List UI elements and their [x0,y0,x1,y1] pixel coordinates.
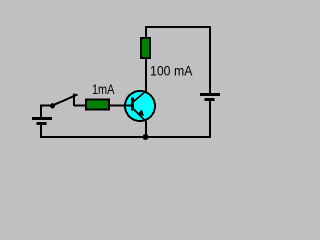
wire: resistor R2 to transistor base [110,105,132,107]
switch SW1 lever (open) [53,95,78,106]
battery B1 (right) short plate [205,98,215,101]
wire: top horizontal (collector loop top) [145,26,211,28]
switch SW1 pivot dot [50,103,55,108]
resistor R2 (1mA, horizontal) [86,100,109,110]
transistor Q1 collector stroke [133,91,146,102]
svg-text:1mA: 1mA [92,82,115,97]
battery B1 (right) long plate [200,93,220,96]
wire: resistor R1 to transistor Q1 collector [145,59,147,93]
wire: left vertical, top wire to resistor R1 [145,26,147,38]
transistor Q1 base bar [131,98,134,111]
junction node [143,134,149,140]
wire: battery B1 - down to bottom rail [209,101,211,138]
wire: bottom rail [41,136,210,138]
battery B2 (left) long plate [32,117,52,120]
wire: left corner down to battery B2 + [40,105,42,117]
transistor Q1 body [125,91,155,121]
resistor R1 (100 mA, vertical) [141,38,150,58]
transistor Q1 emitter stroke [133,109,146,122]
svg-text:100 mA: 100 mA [150,63,193,78]
wire: emitter down to junction [145,120,147,137]
wire: battery B2 - down to bottom rail [40,125,42,138]
battery B2 (left) short plate [37,122,47,125]
wire: switch post to resistor R2 [74,105,86,107]
transistor Q1 emitter arrow [138,110,145,117]
wire: switch pivot to left corner [40,105,51,107]
wire: right vertical, top wire to battery B1 + [209,26,211,93]
switch SW1 fixed post [73,94,75,107]
